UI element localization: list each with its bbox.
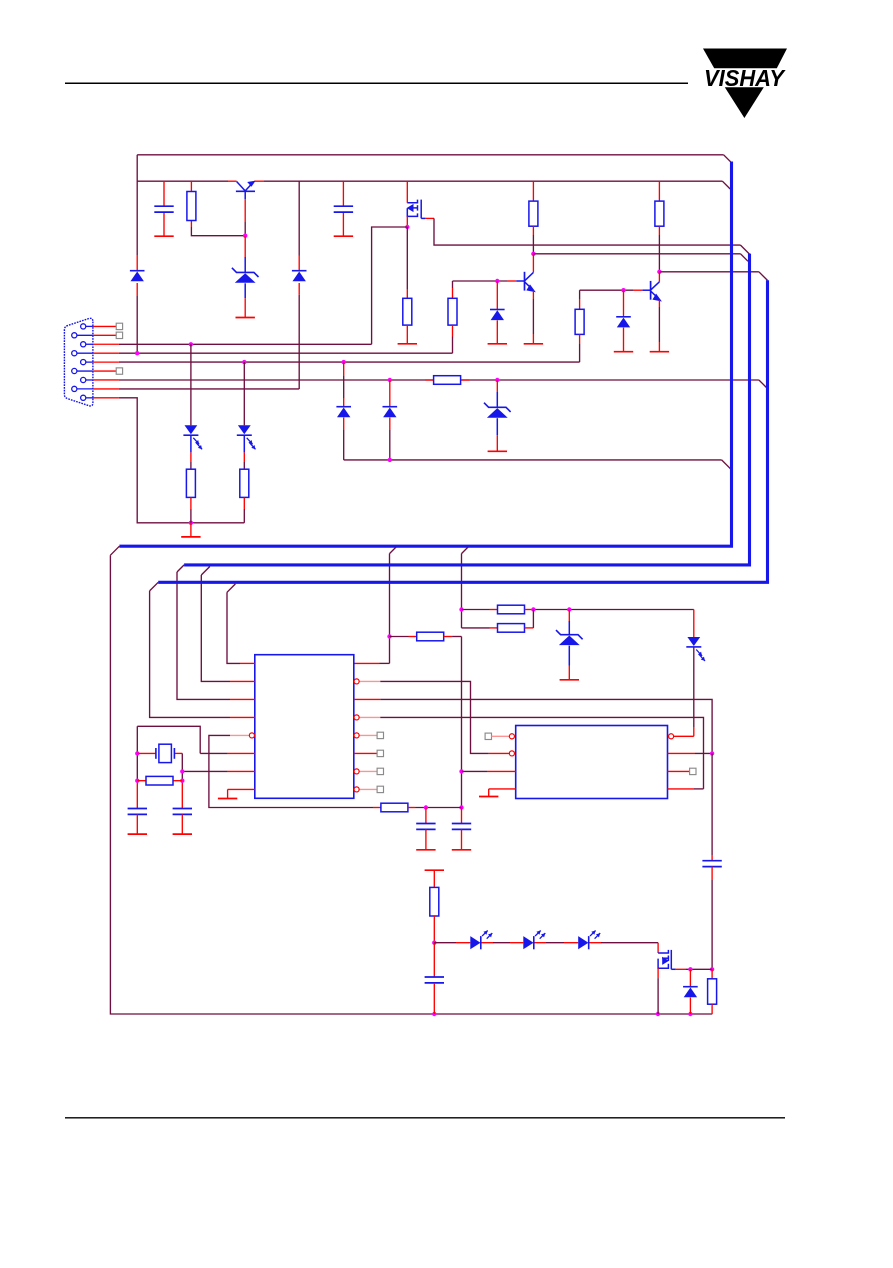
resistor R2 below M1	[406, 227, 408, 289]
connector J1 pin 5 circle	[81, 360, 86, 365]
ground bar under Z1	[236, 317, 255, 319]
wire M1 source to pin3 riser	[372, 227, 408, 344]
diode D7 from pin7 to diode rail	[389, 380, 391, 407]
wire bevel bus B1 to outer-left vertical	[110, 546, 119, 555]
diode D2	[292, 270, 307, 272]
capacitor C8	[128, 808, 147, 810]
crystal right node vertical	[181, 753, 183, 780]
resistor R15 leads	[433, 870, 435, 887]
resistor R1 leads	[190, 181, 192, 191]
node x389 / resistor line	[387, 634, 391, 638]
ground bar under C4	[416, 849, 435, 851]
connector J1 pin 6 circle	[72, 368, 77, 373]
wire pin1 red lead	[93, 325, 116, 327]
node bottom rail / M2 source	[656, 1012, 660, 1016]
IC1 R4 bubble	[354, 715, 359, 720]
resistor R4 on rail2	[658, 181, 660, 201]
mosfet M2 gate line	[670, 950, 672, 969]
node x461 / line 609	[459, 607, 463, 611]
node Q1 base / R1 junction	[243, 234, 247, 238]
crystal X1 left node vertical	[136, 726, 138, 753]
wire vertical x461 upper	[461, 554, 463, 628]
terminal square pin2	[116, 332, 122, 338]
terminal square IC1 R6	[377, 750, 383, 756]
node pin3/LED1	[189, 342, 193, 346]
wire IC1 L4 lead	[230, 716, 255, 718]
wire line5 to bus B3	[659, 271, 759, 273]
diode D1 leads on left vertical	[136, 255, 138, 271]
transistor Q2 collector lead	[532, 254, 534, 273]
bus B3 vertical+horizontal (thick blue)	[158, 280, 767, 582]
ground bar under R2	[398, 343, 417, 345]
wire LED5 to LED6	[535, 942, 547, 944]
wire vertical x389 to IC1 right pin1	[389, 554, 391, 664]
wire IC2 L3 lead	[462, 770, 488, 772]
bus B1 vertical+horizontal (thick blue)	[119, 162, 731, 547]
capacitor C1 leads	[163, 181, 165, 206]
led LED1	[185, 425, 198, 434]
node pin5/LED2	[242, 360, 246, 364]
connector J1 pin 2 circle	[72, 333, 77, 338]
transistor Q2 emitter lead + ground	[532, 291, 534, 299]
node Q3 collector line5	[657, 270, 661, 274]
wire pin4 red lead	[93, 352, 119, 354]
mosfet M2 symbol	[658, 950, 668, 953]
node LED rail / ground	[189, 521, 193, 525]
transistor Q2 symbol	[524, 272, 526, 291]
wire IC1 L3 lead	[230, 698, 255, 700]
zener Z4 under line 609	[568, 610, 570, 622]
node x461 / line 807	[459, 805, 463, 809]
capacitor C9	[173, 808, 192, 810]
wire IC2 L1 bubble lead	[492, 735, 510, 737]
led LED3 top-right	[693, 610, 695, 638]
wire bevel bus B2 to pin2 feed	[201, 567, 210, 576]
resistor R11 under LED2	[240, 469, 249, 497]
node bottom rail / C7	[432, 1012, 436, 1016]
connector J1 pin 4 circle	[72, 351, 77, 356]
wire pin8 red lead	[93, 388, 119, 390]
resistor R13 on line 628	[498, 624, 525, 633]
wire vertical x461 lower	[461, 637, 463, 808]
mosfet M1 symbol	[407, 200, 417, 203]
wire bevel rail2 into bus B1	[722, 181, 730, 189]
ground bar under C1	[154, 235, 173, 237]
wire pin2 red lead	[93, 334, 116, 336]
wire vertical x299 rail2 to pin8	[298, 181, 300, 255]
diode Z3	[689, 969, 691, 986]
resistor R14 on line 636	[417, 632, 444, 641]
node R15 / LED string	[432, 941, 436, 945]
wire LED4 to LED5	[482, 942, 494, 944]
node crystal left / X1	[135, 751, 139, 755]
wire line4 to bus B2	[533, 253, 740, 255]
led LED5	[523, 936, 533, 949]
wire IC2 R3 lead	[668, 770, 690, 772]
svg-text:VISHAY: VISHAY	[704, 65, 787, 91]
crystal X1	[155, 748, 157, 759]
mosfet M2 source lead to rail	[657, 968, 659, 978]
node R3/Q2 collector line4	[531, 252, 535, 256]
node line609 / R13	[531, 607, 535, 611]
wire VCC1 top rail	[137, 154, 723, 156]
mosfet M1 drain lead	[406, 181, 408, 203]
wire IC2 R1 lead	[673, 735, 693, 737]
IC1 R7 bubble	[354, 769, 359, 774]
terminal square IC1 R5	[377, 732, 383, 738]
ground bar IC2 L4	[479, 796, 498, 798]
wire pin6 red lead	[93, 370, 116, 372]
IC1 R2 bubble	[354, 679, 359, 684]
node diode rail / D7	[388, 458, 392, 462]
mosfet M1 source lead	[406, 216, 408, 227]
wire IC1 L1 lead	[240, 662, 255, 664]
node pin4/left vertical	[135, 351, 139, 355]
power stub bar above R15	[425, 869, 444, 871]
IC U1 body	[255, 655, 354, 799]
node crystal right / R9	[180, 779, 184, 783]
terminal square IC1 R8	[377, 786, 383, 792]
wire IC2 L4 ground	[489, 788, 516, 790]
led LED2	[238, 425, 251, 434]
wire x712 vertical to cap C6	[711, 753, 713, 855]
resistor R6 from Q3 base to pin5	[579, 290, 581, 299]
wire Q3 base line	[580, 289, 633, 291]
wire rail2 y181	[137, 180, 228, 182]
IC1 L5 bubble	[249, 733, 254, 738]
diode DA from pin5 to diode rail	[343, 362, 345, 376]
wire IC1 L5 bubble net	[230, 734, 249, 736]
wire LED string start	[434, 942, 456, 944]
wire pin8 line	[119, 388, 299, 390]
capacitor C2 leads	[342, 181, 344, 206]
ground stub under LED rail	[190, 523, 192, 537]
ground bar IC1 pin8	[218, 798, 237, 800]
wire pin4 feed vertical	[150, 591, 230, 718]
wire IC2 R4 lead	[668, 788, 695, 790]
node bottom rail / Z3	[688, 1012, 692, 1016]
wire diode rail y460	[344, 459, 722, 461]
ground bar under Z4	[560, 679, 579, 681]
wire LED3 cathode down to IC2 pin R1	[693, 647, 695, 727]
wire pin9 route to LED rail	[119, 398, 244, 523]
wire IC1 R3 net down right side	[354, 698, 381, 700]
resistor R7 on pin7 line	[434, 376, 461, 385]
terminal square IC1 R7	[377, 768, 383, 774]
transistor Q1 base lead down	[244, 191, 246, 199]
ground bar under D5	[488, 343, 507, 345]
wire IC2 R2 lead	[668, 752, 696, 754]
wire IC1 L6 lead from crystal left node	[200, 752, 227, 754]
zener Z1 top lead	[244, 236, 246, 257]
wire pin5 line	[119, 361, 580, 363]
capacitor C7 below node	[433, 943, 435, 977]
transistor Q3 symbol	[650, 281, 652, 300]
connector J1 pin 9 circle	[81, 395, 86, 400]
ground bar under C9	[173, 833, 192, 835]
wire bevel diode rail into bus B1	[722, 460, 731, 469]
capacitor C1	[154, 205, 173, 207]
node pin7/D7	[388, 378, 392, 382]
ground bar under C5	[452, 849, 471, 851]
wire pin7 line	[119, 379, 434, 381]
resistor R9	[146, 776, 173, 785]
IC2 R1 bubble	[669, 734, 674, 739]
node Q2 base / zener tap	[495, 279, 499, 283]
node line609 / Z4	[567, 607, 571, 611]
wire IC1 R8 bubble to square	[359, 788, 377, 790]
terminal square IC2 L1	[485, 733, 491, 739]
bus B2 vertical+horizontal (thick blue)	[184, 254, 749, 565]
capacitor C4	[425, 808, 427, 824]
wire pin3 red lead	[93, 343, 119, 345]
resistor R12 on line 609	[498, 605, 525, 614]
IC U2 transceiver body	[516, 726, 668, 799]
node IC2 R2 / x712 vertical	[710, 751, 714, 755]
node Q3 base / diode tap	[621, 288, 625, 292]
wire pin5 red lead	[93, 361, 119, 363]
wire pin4 line	[119, 352, 453, 354]
wire bevel VCC1 into bus B1	[724, 155, 732, 163]
node x712 / gate line	[710, 967, 714, 971]
node M1 source junction	[405, 225, 409, 229]
Vishay logo triangle	[725, 87, 764, 118]
wire bevel line5 into bus B3	[759, 272, 768, 281]
capacitor C5	[461, 808, 463, 824]
transistor Q1 base bar	[236, 190, 255, 192]
ground bar under D6	[614, 351, 633, 353]
wire pin7 red lead	[93, 379, 119, 381]
wire bevel line4 into bus B2	[741, 254, 749, 261]
transistor Q3 emitter lead + ground	[658, 300, 660, 307]
diode D5 under Q2 base	[496, 281, 498, 310]
node crystal left / R9	[135, 779, 139, 783]
diode D1	[130, 270, 145, 272]
ground bar under C2	[334, 235, 353, 237]
wire pin3 line	[119, 343, 372, 345]
footer rule	[65, 1117, 785, 1119]
terminal square pin1	[116, 323, 122, 329]
wire IC1 R2 bubble net to IC2 L2	[359, 680, 380, 682]
resistor R16	[711, 969, 713, 979]
IC1 R8 bubble	[354, 787, 359, 792]
wire IC1 R6 to square	[354, 752, 377, 754]
led LED1 branch from pin3	[190, 344, 192, 425]
wire IC1 R5 bubble to square	[359, 734, 377, 736]
zener Z1 bottom lead	[244, 283, 246, 298]
resistor R8 on line 807	[373, 807, 381, 809]
wire IC1 R4 bubble net to IC2 R4	[359, 716, 380, 718]
Vishay logo trapezoid	[703, 49, 787, 69]
wire bevel bus B2 left end to pin3 feed	[177, 565, 184, 572]
terminal square pin6	[116, 368, 122, 374]
resistor R3 on rail2	[532, 181, 534, 201]
node pin5/diode DA	[342, 360, 346, 364]
connector J1 pin 7 circle	[81, 377, 86, 382]
wire bevel pin7 into bus B3	[759, 380, 768, 389]
connector J1 pin 1 circle	[81, 324, 86, 329]
wire bevel bus B3 to pin1 feed	[227, 584, 235, 592]
node x461 / IC2 L3 line	[459, 769, 463, 773]
transistor Q3 collector lead	[658, 272, 660, 282]
led LED4	[470, 936, 480, 949]
resistor R5 from Q2 base to pin4	[452, 281, 454, 288]
node line807 / C4	[424, 805, 428, 809]
node gate net / Z3	[688, 967, 692, 971]
wire outer-left vertical + bottom rail	[110, 555, 712, 1014]
node pin7/Z2	[495, 378, 499, 382]
resistor R9 leads	[137, 780, 146, 782]
diode D6 under Q3 base	[623, 290, 625, 317]
wire resistor line y636	[390, 636, 409, 638]
led LED2 branch from pin5	[243, 362, 245, 425]
wire IC1 L2 lead	[230, 680, 255, 682]
wire line y609	[462, 609, 490, 611]
ground bar under Z2	[488, 450, 507, 452]
zener Z1	[232, 268, 259, 277]
wire bevel gate net into bus B2	[741, 245, 750, 254]
wire IC1 L8 ground	[228, 788, 255, 790]
IC2 L1 bubble	[509, 734, 514, 739]
zener Z2 from pin7	[496, 380, 498, 392]
capacitor C6	[702, 860, 721, 862]
connector J1 pin 3 circle	[81, 342, 86, 347]
wire bevel bus B1 to x461 vertical	[462, 546, 469, 553]
crystal X1 leads	[137, 752, 156, 754]
led LED6	[578, 936, 588, 949]
IC2 L2 bubble	[509, 751, 514, 756]
node crystal right / pin7 line	[180, 769, 184, 773]
wire pin3 feed vertical	[177, 572, 230, 699]
wire IC1 L7 lead from crystal right node	[182, 770, 227, 772]
wire bevel bus B1 to IC1 pin9 vertical	[390, 546, 397, 553]
transistor Q1 collector diagonal	[237, 182, 246, 191]
wire pin2 feed vertical	[201, 575, 230, 681]
wire LED6 to M2 drain	[589, 942, 601, 944]
connector J1 pin 8 circle	[72, 386, 77, 391]
capacitor C2	[334, 205, 353, 207]
wire IC1 R7 bubble to square	[359, 770, 377, 772]
wire bevel bus B3 left end to pin4 feed	[150, 582, 159, 591]
transistor Q1 emitter diagonal with arrow	[245, 184, 252, 191]
wire left vertical x137	[136, 155, 138, 255]
connector J1 DB9 shell	[64, 318, 93, 406]
wire IC1 right pin1 lead	[380, 662, 390, 664]
wire line y628 (R13)	[462, 627, 490, 629]
terminal square IC2 R3	[690, 768, 696, 774]
wire pin9 red lead	[93, 397, 119, 399]
resistor R1	[187, 192, 196, 221]
header rule	[65, 82, 688, 84]
mosfet M1 gate line	[420, 200, 422, 219]
IC1 R5 bubble	[354, 733, 359, 738]
resistor R10 under LED1	[186, 469, 195, 497]
mosfet M2 drain lead	[657, 943, 659, 953]
ground bar under C8	[128, 833, 147, 835]
wire Q2 base line	[453, 280, 508, 282]
wire M1 gate net to bus B2	[425, 217, 434, 219]
wire pin1 feed vertical	[227, 592, 240, 663]
wire M2 gate net	[676, 968, 686, 970]
